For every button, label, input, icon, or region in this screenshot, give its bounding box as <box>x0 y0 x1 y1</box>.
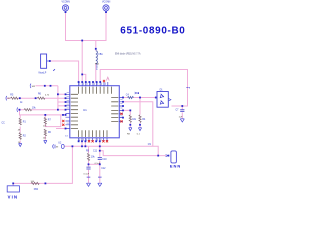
svg-text:C12: C12 <box>101 168 106 170</box>
svg-text:U1: U1 <box>83 108 87 112</box>
svg-text:VIN: VIN <box>8 194 17 199</box>
svg-text:VCONN: VCONN <box>62 2 71 4</box>
svg-text:651-0890-B0: 651-0890-B0 <box>120 26 185 37</box>
svg-text:1uF: 1uF <box>179 116 183 118</box>
svg-text:FB4: FB4 <box>34 189 39 191</box>
svg-text:ENN: ENN <box>170 164 181 169</box>
svg-text:VbusLP: VbusLP <box>38 73 47 75</box>
svg-text:C10: C10 <box>102 159 107 161</box>
svg-text:FB1: FB1 <box>99 54 104 56</box>
svg-text:VCONN: VCONN <box>102 2 111 4</box>
svg-text:CC: CC <box>2 122 6 124</box>
svg-text:0.1uF: 0.1uF <box>95 163 101 165</box>
svg-text:0.1uF: 0.1uF <box>84 174 90 176</box>
svg-text:EMI diode (FB2) NS 7.7k: EMI diode (FB2) NS 7.7k <box>115 53 141 55</box>
